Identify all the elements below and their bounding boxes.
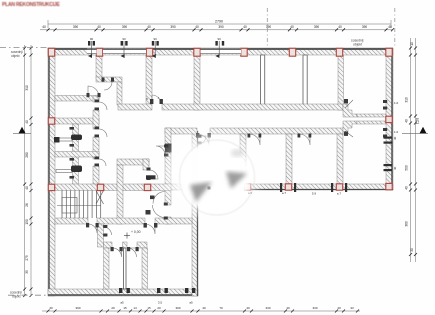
wall passage north [357, 114, 386, 117]
label B5 door corridor [146, 96, 160, 101]
text sosednji objekt top right [351, 39, 364, 47]
dash property line bottom [8, 294, 48, 296]
door right wing room1 [249, 134, 260, 145]
partition counter 2 [56, 170, 72, 173]
dim top segments [40, 29, 393, 31]
svg-text:15: 15 [123, 306, 127, 310]
column passage east [386, 116, 392, 122]
window band x200-241 [201, 49, 242, 55]
svg-text:390: 390 [218, 25, 224, 29]
svg-text:15: 15 [147, 306, 151, 310]
svg-text:390: 390 [314, 25, 320, 29]
wall shaft horizontal [96, 77, 122, 82]
entry thresholds on bottom wall [119, 288, 195, 293]
svg-text:90: 90 [90, 37, 94, 41]
svg-text:a.7: a.7 [337, 192, 342, 196]
wall corridor north west part [118, 104, 152, 110]
wall stub x143 [143, 159, 149, 170]
wall hall west [165, 128, 171, 205]
wall corridor south east part [210, 128, 343, 134]
column top row [48, 48, 54, 56]
door shaft wall [104, 82, 112, 90]
wall exterior left [48, 48, 55, 296]
svg-text:objekt: objekt [11, 54, 20, 58]
door funnel south [345, 131, 353, 137]
svg-text:20: 20 [111, 306, 115, 310]
door bottom room small 1 [113, 248, 122, 257]
wall shaft vertical [117, 82, 122, 105]
wall right-wing west [240, 134, 246, 184]
door corridor south x197-210 [197, 134, 209, 146]
svg-text:40: 40 [246, 306, 250, 310]
svg-text:500: 500 [405, 165, 409, 171]
fixture counter [71, 135, 82, 141]
svg-text:40: 40 [405, 186, 409, 190]
door stub x143 [149, 170, 158, 179]
svg-text:40: 40 [290, 25, 294, 29]
wall corridor south west part [165, 128, 197, 134]
svg-text:1.0: 1.0 [394, 130, 399, 134]
window band x87-96 [87, 49, 97, 55]
wall hall west x97 [98, 224, 104, 247]
door to bottom right room [145, 224, 155, 234]
dim right double [410, 38, 412, 262]
svg-text:14: 14 [133, 306, 137, 310]
svg-text:390: 390 [175, 306, 180, 310]
corridor east funnel north step [343, 104, 357, 117]
tick marks top dim [47, 28, 395, 31]
door hall west wall lower [153, 205, 166, 218]
wall wc mid horizontal [55, 152, 99, 158]
dash vertical line x267 [266, 8, 268, 48]
labels left dims (rotated) [25, 85, 29, 274]
wall hall bottom y218 [55, 218, 192, 224]
datum triangle right [420, 127, 427, 134]
wall corridor north east part [162, 104, 343, 110]
svg-text:40: 40 [42, 25, 46, 29]
fixture radiator x146 [146, 175, 156, 179]
svg-text:40: 40 [243, 25, 247, 29]
door stair hall 1 [88, 224, 97, 233]
dash property line top [0, 47, 48, 49]
wall divider below column B2 [96, 55, 102, 78]
plan drawing group [48, 37, 393, 296]
wall hall west lower piece [165, 217, 171, 224]
wall exterior right [386, 48, 393, 190]
svg-text:a5: a5 [120, 301, 124, 305]
wall right-wing divider 1 [286, 134, 292, 184]
svg-text:330: 330 [312, 306, 317, 310]
svg-text:2790: 2790 [215, 20, 223, 24]
labels right dims [405, 42, 420, 252]
door room A [88, 86, 99, 97]
svg-text:40: 40 [147, 25, 151, 29]
door hall east wall [198, 136, 206, 144]
svg-text:a5: a5 [189, 301, 193, 305]
dim left double [24, 45, 26, 296]
wall room A bottom [55, 96, 99, 102]
svg-text:390: 390 [170, 25, 176, 29]
wall thin divider x124 [123, 248, 126, 289]
wall wc top [55, 118, 99, 124]
door wc1 [99, 129, 107, 137]
dim bottom [42, 310, 360, 312]
fixture hall [165, 144, 172, 153]
svg-text:10: 10 [410, 42, 414, 46]
svg-text:40: 40 [405, 119, 409, 123]
wall divider x303 thin [303, 55, 307, 105]
svg-text:20: 20 [157, 306, 161, 310]
wall right-wing divider 2 [337, 134, 343, 184]
column row y184 [48, 184, 54, 190]
wall wc east vertical [93, 96, 99, 190]
wall mid horizontal y159 [117, 159, 149, 165]
door jamb black marks [70, 78, 388, 252]
fixture sink left wall [54, 137, 60, 143]
svg-text:B: B [146, 97, 148, 101]
svg-text:310: 310 [25, 85, 29, 91]
svg-text:26: 26 [25, 203, 29, 207]
wall passage south [357, 121, 386, 124]
window dim cluster x215-225 [215, 37, 224, 58]
svg-text:390: 390 [73, 25, 79, 29]
wall divider x260 thin [261, 55, 265, 105]
svg-text:280: 280 [25, 152, 29, 158]
svg-text:360: 360 [405, 221, 409, 227]
wall divider below column B3 [146, 55, 152, 104]
door right wing room2 [299, 134, 310, 145]
labels bottom dim [49, 306, 354, 310]
dash vertical line x395 [394, 8, 396, 48]
svg-text:390: 390 [75, 306, 80, 310]
svg-text:40: 40 [195, 25, 199, 29]
svg-text:40: 40 [286, 306, 290, 310]
door hall west wall x97 [104, 227, 112, 235]
door corridor north x152-162 [152, 95, 161, 104]
svg-text:275: 275 [25, 255, 29, 261]
svg-text:objekt: objekt [12, 295, 21, 299]
svg-text:40: 40 [202, 306, 206, 310]
svg-text:objekt: objekt [353, 43, 362, 47]
svg-text:40: 40 [337, 306, 341, 310]
wall south of right wing (gallery edge) [244, 184, 393, 190]
dim top overall [48, 23, 391, 25]
svg-text:PLAN REKONSTRUKCIJE: PLAN REKONSTRUKCIJE [2, 2, 60, 8]
window band x104-146 [103, 49, 146, 55]
svg-text:40: 40 [49, 306, 53, 310]
wall divider x338 [338, 55, 344, 110]
right wall window labels [393, 101, 399, 170]
wall columns row y184 [55, 184, 171, 191]
svg-text:33: 33 [350, 306, 354, 310]
door south of col x152 [150, 192, 165, 204]
svg-text:90: 90 [154, 37, 158, 41]
column left wall mid [48, 118, 54, 124]
wall exterior top [48, 48, 393, 55]
wall exterior bottom [48, 289, 198, 296]
wall hall south stub [165, 184, 192, 190]
text sosednji objekt left bottom [10, 291, 22, 299]
column right wing south row [244, 184, 250, 190]
svg-text:40: 40 [393, 136, 397, 140]
ticks bottom dim [47, 310, 360, 313]
wall bottom room divider x101 [104, 248, 110, 289]
svg-text:390: 390 [266, 25, 272, 29]
svg-text:310: 310 [405, 97, 409, 103]
ticks left dims [23, 47, 32, 298]
svg-text:70: 70 [219, 306, 223, 310]
window dim cluster x152-158 [152, 37, 159, 58]
window dim cluster x121-127 [121, 37, 128, 58]
wall bottom room divider x140 [142, 248, 148, 289]
corridor east funnel south step [343, 121, 357, 134]
datum line left [13, 132, 31, 134]
door wc2 [99, 159, 106, 166]
svg-text:40: 40 [393, 166, 397, 170]
window dim cluster x88-95 [88, 37, 95, 58]
svg-text:40: 40 [388, 25, 392, 29]
svg-text:1,28: 1,28 [416, 118, 420, 124]
datum line right [402, 132, 428, 134]
svg-text:a.7: a.7 [282, 191, 287, 195]
svg-text:35: 35 [25, 270, 29, 274]
svg-text:5.9: 5.9 [312, 192, 317, 196]
svg-text:390: 390 [122, 25, 128, 29]
svg-text:1.0: 1.0 [394, 101, 399, 105]
ticks right dims [409, 47, 417, 257]
svg-text:.5: .5 [157, 96, 160, 100]
door bottom room small 2 [128, 248, 137, 257]
svg-text:40: 40 [25, 186, 29, 190]
wall east of bottom-left wing [192, 131, 198, 296]
svg-text:30: 30 [410, 248, 414, 252]
labels top dims [42, 20, 392, 30]
svg-text:40: 40 [97, 25, 101, 29]
right wall window marks [384, 137, 393, 172]
door funnel north [345, 100, 353, 108]
gallery wall labels below right wing [248, 191, 342, 196]
wall wc middle vertical [73, 124, 79, 188]
door wc niche [99, 102, 107, 110]
svg-text:90: 90 [122, 37, 126, 41]
level cross bottom hall [124, 233, 130, 239]
text sosednji objekt left top [11, 50, 23, 58]
datum triangle left [19, 127, 26, 134]
svg-text:40: 40 [25, 120, 29, 124]
svg-text:90: 90 [218, 37, 222, 41]
wall divider below column B4 [194, 55, 200, 110]
wall mid vertical x117 [117, 165, 123, 224]
svg-text:3.5: 3.5 [158, 301, 163, 305]
svg-text:150: 150 [25, 219, 29, 225]
svg-text:+ 0,00: + 0,00 [131, 230, 141, 234]
door hall west wall [156, 146, 165, 155]
wall bottom rooms y242 [104, 242, 148, 248]
svg-text:40: 40 [338, 25, 342, 29]
svg-text:330: 330 [265, 306, 270, 310]
partition counter 1 [56, 138, 72, 141]
svg-text:390: 390 [362, 25, 368, 29]
